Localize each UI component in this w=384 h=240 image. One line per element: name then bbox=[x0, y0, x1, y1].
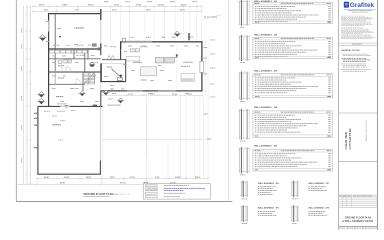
hall spine wall bbox=[100, 49, 102, 55]
left dimension line 2 bbox=[26, 6, 28, 184]
wall section drawing W3 bbox=[239, 72, 250, 74]
general notes list bbox=[341, 53, 342, 56]
door tag circle bbox=[90, 62, 94, 66]
east window box bbox=[200, 61, 203, 72]
title block divider 2 bbox=[339, 112, 378, 114]
sheet left border bbox=[15, 0, 17, 202]
great room east wall open rail bbox=[100, 20, 102, 43]
svg-text:Grafitek: Grafitek bbox=[350, 2, 375, 9]
window seat cabinet row bbox=[49, 50, 54, 53]
garage interior specks bbox=[44, 110, 46, 113]
legend row 4 swatch bbox=[145, 196, 157, 198]
plan viewport right edge bbox=[228, 0, 230, 201]
labels above east wing north wall bbox=[130, 36, 131, 39]
top dimension extension lines bbox=[32, 7, 34, 14]
sheet bottom border bbox=[16, 200, 233, 202]
wall section drawing W4 bbox=[239, 109, 250, 111]
great room west wall inner bbox=[54, 14, 56, 49]
project name vertical text bbox=[344, 132, 348, 150]
garage top dark blob bbox=[65, 105, 68, 107]
left dimension ticks bbox=[29, 6, 31, 7]
top dimension ticks bbox=[32, 5, 33, 7]
title block paragraph 1 bbox=[341, 15, 343, 18]
east wing south wall bbox=[101, 90, 203, 92]
east wing west wall upper bbox=[120, 42, 122, 49]
garage north wall bbox=[38, 105, 103, 107]
east wing north wall bbox=[120, 41, 202, 43]
wall section drawing W2 bbox=[239, 36, 250, 38]
wall assembly W1 notes box bbox=[253, 2, 333, 23]
closet divider light bbox=[61, 59, 63, 72]
wall assembly W7 notes bbox=[308, 185, 309, 188]
right margin dim labels bbox=[210, 39, 211, 42]
bath north wall bbox=[102, 59, 126, 61]
east side dimension ext lines bbox=[204, 42, 206, 96]
wc texture text bbox=[76, 54, 78, 57]
marker center bbox=[103, 90, 108, 93]
wall assembly W5 notes box bbox=[253, 149, 333, 171]
bath fixture bbox=[118, 78, 123, 81]
marker bath small bbox=[119, 74, 122, 77]
legend row 1 text bbox=[164, 184, 166, 187]
revision table header text bbox=[339, 195, 341, 198]
great room north wall bbox=[48, 13, 101, 15]
hall to garage wall bbox=[100, 91, 102, 107]
svg-text:PROJECT NO. 2018-04: PROJECT NO. 2018-04 bbox=[366, 120, 368, 142]
door swing diagonal center bbox=[111, 69, 122, 79]
hall door arc bbox=[66, 67, 71, 72]
legend row 4 text bbox=[164, 195, 165, 198]
fireplace block bbox=[92, 43, 97, 46]
wall section drawing W8 bbox=[240, 206, 247, 208]
legend row 3 text bbox=[164, 192, 166, 195]
ceiling break line in living bbox=[176, 43, 178, 91]
west wing inner wall lower bbox=[54, 71, 56, 84]
window tag bar on north wall bbox=[188, 33, 189, 40]
wall assembly W6 notes bbox=[258, 185, 259, 188]
wall assembly W3 notes box bbox=[253, 74, 333, 98]
bottom dimension extension lines bbox=[36, 176, 38, 184]
great room west wall outer bbox=[48, 13, 50, 50]
bottom dimension line 2 bbox=[17, 183, 209, 185]
bottom dimension labels bbox=[44, 177, 46, 178]
top dimension line 1 bbox=[33, 5, 202, 7]
wall section drawing W7 bbox=[291, 181, 298, 183]
wc room west wall bbox=[73, 50, 75, 59]
kitchen counter bbox=[126, 57, 140, 61]
kitchen label bbox=[133, 62, 135, 63]
revision table bbox=[339, 195, 378, 207]
legend row 2 text blue bbox=[164, 187, 166, 190]
wall section drawing W6 bbox=[240, 181, 247, 183]
labels above south wall bbox=[53, 44, 55, 47]
porch label over garage bbox=[108, 105, 110, 106]
bottom dimension line 1 bbox=[37, 178, 208, 180]
wall assembly W9 notes bbox=[308, 210, 309, 213]
top dimension line 2 bbox=[33, 10, 202, 12]
small texts scattered in plan bbox=[57, 27, 61, 30]
legend row 3 swatch bbox=[145, 192, 157, 194]
wc room east wall bbox=[87, 50, 89, 59]
closet zigzag bbox=[107, 55, 114, 59]
legend label bbox=[144, 182, 146, 183]
marker lower center bbox=[118, 98, 123, 101]
section marker C bbox=[38, 98, 44, 101]
bath west wall bbox=[100, 63, 102, 81]
stair treads bbox=[83, 72, 94, 74]
wall section drawing W1 bbox=[239, 1, 250, 3]
garage door markers bbox=[34, 113, 37, 114]
wall assembly W4 notes box bbox=[253, 111, 333, 137]
porch outline horizontal bbox=[103, 138, 209, 140]
great room east wall upper stub bbox=[100, 9, 102, 20]
dining label bbox=[141, 80, 143, 81]
left dimension line 3 bbox=[29, 6, 31, 184]
east wing south wall windows bbox=[127, 90, 143, 92]
great room label bbox=[73, 27, 76, 28]
garage label bbox=[53, 124, 55, 125]
west wing interior wall C bbox=[49, 83, 85, 85]
chimney bump above wall bbox=[122, 38, 125, 41]
revision table columns bbox=[341, 195, 343, 207]
marker kitchen diamond bbox=[174, 31, 180, 34]
bottom info row bbox=[339, 227, 340, 230]
great room south wall bbox=[49, 48, 101, 50]
bath south wall bbox=[101, 81, 127, 83]
left dimension labels bbox=[20, 28, 23, 33]
logo subtitle text bbox=[348, 9, 350, 12]
title block paragraph 2 bbox=[341, 27, 343, 30]
stair east edge bbox=[94, 72, 96, 84]
stair diagonal break bbox=[84, 73, 94, 84]
buffet bbox=[181, 74, 195, 82]
living labels bbox=[183, 62, 184, 63]
legend box bbox=[144, 184, 211, 200]
west wing room labels bbox=[58, 65, 60, 66]
title block bottom rule bbox=[339, 225, 378, 227]
garage east wall bbox=[99, 160, 101, 174]
garage door opening marks bbox=[60, 105, 70, 107]
legend row 1 swatch bbox=[145, 185, 157, 187]
porch outline vertical bbox=[146, 104, 148, 156]
great room west wall window gap bbox=[48, 21, 50, 32]
kitchen appliances bbox=[155, 57, 164, 63]
logo subtitle rule bbox=[344, 8, 376, 10]
plan title underline bbox=[83, 195, 109, 197]
garage south wall bbox=[38, 173, 101, 175]
wall assembly W8 notes bbox=[258, 210, 259, 213]
section marker B bbox=[38, 92, 44, 95]
bottom dimension ticks bbox=[36, 178, 37, 180]
marker mid hall bbox=[80, 91, 85, 94]
title block left border bbox=[338, 0, 340, 230]
svg-text:GROUND FLOOR PLAN: GROUND FLOOR PLAN bbox=[345, 217, 372, 220]
hall spine lower light bbox=[100, 82, 102, 91]
west wing interior wall A bbox=[49, 58, 101, 60]
bath east wall lower bbox=[125, 60, 127, 82]
svg-text:& WALL ASSEMBLY DETAIL: & WALL ASSEMBLY DETAIL bbox=[342, 220, 374, 223]
project number vertical text bbox=[366, 120, 368, 142]
east wing north wall window bbox=[126, 41, 152, 43]
east wing east wall bbox=[201, 42, 203, 91]
south wall sub-dimension labels bbox=[112, 93, 114, 94]
extra room specks bbox=[52, 55, 56, 58]
bed2 door arc bbox=[76, 79, 81, 84]
island bbox=[141, 67, 157, 76]
interior vertical wall mid bbox=[84, 52, 86, 72]
section marker A bbox=[39, 35, 45, 38]
title block right border bbox=[376, 0, 378, 230]
wall section drawing W5 bbox=[239, 148, 250, 150]
wall section drawing W9 bbox=[291, 206, 298, 208]
extra top dim labels bbox=[104, 1, 106, 2]
bath vanity edge bbox=[101, 62, 127, 64]
post in living corner bbox=[176, 54, 178, 56]
west wing interior wall B bbox=[49, 71, 101, 73]
wall assembly W2 notes box bbox=[253, 37, 333, 58]
west wing west wall lower bbox=[48, 49, 50, 107]
title block divider 3 bbox=[339, 160, 378, 162]
column dot bbox=[59, 36, 61, 38]
bath label bbox=[107, 67, 109, 68]
great room east wall lower stub bbox=[100, 44, 102, 49]
label above garage wall bbox=[57, 102, 59, 105]
laundry fixtures bbox=[64, 60, 68, 63]
left dimension line 1 bbox=[23, 6, 25, 184]
divider with centered label bbox=[339, 42, 378, 44]
garage west wall bbox=[37, 106, 39, 174]
bath east wall upper bbox=[120, 42, 122, 60]
stair center rail bbox=[88, 72, 90, 84]
south wall sub-dimension line bbox=[101, 94, 203, 96]
Grafitek logo icon bbox=[344, 2, 349, 8]
revision table header fill bbox=[339, 195, 377, 197]
top dimension labels bbox=[39, 4, 41, 5]
legend row 2 swatch bbox=[145, 188, 157, 191]
stair west wall bbox=[82, 72, 84, 91]
wc fixture bbox=[58, 61, 61, 64]
kitchen upper cabinets bbox=[131, 49, 135, 52]
dark corner bits bbox=[97, 48, 100, 51]
